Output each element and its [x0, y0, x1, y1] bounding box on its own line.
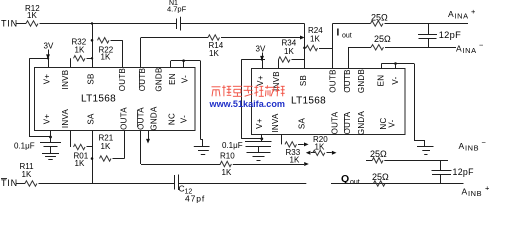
wire hat down right side U1	[200, 61, 202, 140]
resistor 25ohm (Iout)	[371, 21, 384, 26]
resistor R01	[74, 144, 86, 149]
resistor R33	[313, 150, 325, 155]
svg-text:out: out	[350, 179, 360, 186]
wire OUTA stub down U1	[124, 131, 126, 159]
wire SB line U2 (from top rail)	[304, 24, 306, 69]
svg-text:−: −	[479, 41, 484, 50]
resistor 25ohm (AINA-)	[371, 45, 384, 50]
svg-text:INA: INA	[455, 12, 469, 21]
svg-text:0.1μF: 0.1μF	[14, 142, 35, 151]
arrow R33 right	[332, 151, 337, 155]
resistor R14	[208, 35, 219, 40]
wire OUTB-bar stub up U2	[348, 47, 350, 68]
IC U1 LT1568 box	[35, 68, 196, 131]
svg-text:INVA: INVA	[61, 108, 70, 128]
wire R32 to SB line	[87, 58, 93, 60]
svg-text:1K: 1K	[209, 49, 219, 58]
resistor R10	[220, 161, 231, 166]
wire INVA stub down U2	[281, 135, 283, 145]
wire 3V junction right	[241, 59, 265, 61]
svg-text:LT1568: LT1568	[81, 94, 116, 105]
ground EN/V- U1	[194, 146, 210, 148]
wire V- stub U1	[183, 61, 185, 68]
arrow R33 left	[306, 151, 311, 155]
svg-text:INVB: INVB	[272, 71, 281, 91]
junction R21 on SA line	[91, 157, 94, 160]
arrow R20 right	[304, 142, 309, 146]
svg-text:INVB: INVB	[61, 70, 70, 90]
svg-text:V+: V+	[43, 114, 52, 125]
wire V+ top stub U2	[262, 60, 264, 69]
wire R20 to arrow	[298, 144, 304, 146]
wire EN stub U1	[170, 61, 172, 68]
svg-text:NC: NC	[168, 113, 177, 125]
wire CN1 to SB stub of U2	[181, 23, 305, 25]
wire V+ bottom stub U1	[50, 131, 52, 138]
svg-text:LT1568: LT1568	[291, 95, 326, 106]
wire 3V bypass down left side	[29, 58, 31, 137]
arrow into SA line U2	[304, 162, 309, 166]
wire EN hat U2	[381, 63, 414, 65]
wire OUTA-bar stub down U1	[140, 131, 142, 165]
svg-text:I: I	[337, 28, 340, 39]
wire SB line (top rail to U1)	[92, 24, 94, 68]
wire R14 to arrow	[221, 37, 300, 39]
junction R22 on SB line	[91, 39, 94, 42]
svg-text:3V: 3V	[44, 42, 54, 51]
svg-text:out: out	[342, 33, 352, 40]
capacitor 12pF bottom	[440, 160, 442, 170]
junction V- on hat U1	[182, 59, 185, 62]
svg-text:1K: 1K	[101, 142, 111, 151]
svg-text:−: −	[482, 138, 487, 147]
resistor 25ohm (Qout)	[374, 181, 385, 186]
wire C12 to end	[178, 183, 306, 185]
power 3V arrow (right)	[262, 53, 264, 57]
svg-text:1K: 1K	[22, 170, 32, 179]
svg-text:A: A	[448, 9, 454, 19]
svg-text:1K: 1K	[75, 46, 85, 55]
svg-text:V+: V+	[256, 75, 265, 86]
wire OUTA-bar rail	[141, 164, 221, 166]
wire EN stub U2	[381, 64, 383, 69]
wire SA line down to rail	[92, 131, 94, 184]
svg-text:+: +	[485, 184, 490, 193]
svg-text:GNDA: GNDA	[357, 110, 366, 135]
ground EN/V- U2	[417, 146, 434, 148]
wire R01 to SA line	[87, 146, 93, 148]
junction V+ bottom U2	[260, 137, 263, 140]
wire OUTB-bar to 25ohm	[348, 47, 371, 49]
wire INVA stub down	[70, 131, 72, 148]
ground below 0.1uF left	[42, 153, 59, 155]
svg-text:SA: SA	[87, 113, 96, 125]
junction V+ bottom U1	[49, 136, 52, 139]
svg-text:47pf: 47pf	[185, 194, 205, 204]
capacitor 0.1uF (right decoupling)	[261, 139, 263, 142]
svg-text:A: A	[462, 187, 468, 197]
svg-text:TIN: TIN	[1, 178, 18, 188]
svg-text:OUTA: OUTA	[120, 107, 129, 130]
junction R24 on SB line U2	[303, 47, 306, 50]
svg-text:1K: 1K	[27, 11, 37, 20]
svg-text:EN: EN	[168, 73, 177, 85]
power 3V arrow (left)	[48, 50, 50, 56]
arrow GNDA down U1	[148, 131, 150, 139]
svg-text:4.7pF: 4.7pF	[167, 5, 187, 14]
svg-text:OUTB: OUTB	[329, 69, 338, 92]
wire 3V bypass down left of U2	[241, 60, 243, 139]
svg-text:1K: 1K	[310, 35, 320, 44]
svg-text:TIN: TIN	[1, 19, 18, 29]
resistor R34	[279, 57, 290, 62]
wire V+ bottom stub U2	[261, 135, 263, 139]
junction V- on hat U2	[394, 62, 397, 65]
wire OUTB-bar stub up U1	[140, 38, 142, 68]
wire R21 to OUTA corner	[113, 158, 125, 160]
svg-text:EN: EN	[377, 75, 386, 87]
svg-text:A: A	[456, 44, 462, 54]
svg-text:1K: 1K	[284, 47, 294, 56]
resistor R24	[306, 45, 317, 50]
watermark red text	[212, 85, 285, 96]
resistor R22	[98, 38, 110, 43]
svg-text:1K: 1K	[222, 168, 232, 177]
wire OUTB-bar rail left part	[141, 37, 208, 39]
svg-text:INA: INA	[463, 46, 477, 55]
wire hat down right side U2	[414, 64, 416, 141]
wire R12 to C plate (TIN+ top rail)	[40, 23, 177, 25]
svg-text:A: A	[459, 141, 465, 151]
svg-text:GNDA: GNDA	[150, 106, 159, 131]
svg-text:V-: V-	[180, 115, 189, 123]
wire INVB stub up	[70, 58, 72, 67]
wire V+ top stub U1	[48, 58, 50, 67]
svg-text:12pF: 12pF	[439, 30, 461, 40]
wire TIN to R12	[16, 23, 26, 25]
resistor R32	[74, 56, 86, 61]
svg-text:1K: 1K	[75, 159, 85, 168]
capacitor 0.1uF (left decoupling)	[50, 137, 52, 143]
svg-text:SB: SB	[299, 75, 308, 86]
svg-text:OUTA: OUTA	[137, 107, 146, 130]
wire bypass to V+ bottom	[30, 136, 52, 138]
wire OUTB to 25ohm	[333, 23, 371, 25]
capacitor C12 (series, bottom rail)	[174, 175, 176, 190]
wire R11 to C12	[39, 183, 175, 185]
wire Qout rail	[331, 183, 464, 185]
ground below 0.1uF right	[247, 152, 271, 154]
resistor R20 lead zigzag	[285, 142, 296, 147]
wire R34 to SB line U2	[292, 59, 305, 61]
resistor R21	[100, 156, 112, 161]
wire INVB stub up U2	[278, 60, 280, 69]
svg-text:25Ω: 25Ω	[371, 13, 388, 23]
svg-text:INB: INB	[468, 189, 482, 198]
capacitor CN1 (series, top rail)	[176, 19, 178, 30]
resistor 25ohm (AINB-)	[372, 158, 383, 163]
wire 25ohm to AINA-	[385, 47, 456, 49]
capacitor 12pF top	[428, 24, 430, 35]
svg-text:1K: 1K	[101, 53, 111, 62]
svg-text:V-: V-	[391, 76, 400, 84]
wire lead to 25ohm AINB-	[366, 160, 372, 162]
svg-text:R10: R10	[220, 152, 235, 161]
wire 25ohm to AINA+	[385, 23, 469, 25]
arrow into SB line U2	[300, 36, 305, 40]
wire OUTB stub up U1	[122, 40, 124, 67]
resistor R12	[26, 21, 38, 26]
svg-text:SB: SB	[87, 73, 96, 84]
svg-text:3V: 3V	[256, 45, 266, 54]
wire OUTB line U2	[332, 24, 334, 69]
svg-text:OUTB: OUTB	[118, 68, 127, 91]
svg-text:25Ω: 25Ω	[374, 34, 391, 44]
svg-text:GNDB: GNDB	[357, 69, 366, 93]
wire bypass to V+ bottom U2	[241, 138, 261, 140]
wire R10 to arrow	[233, 164, 304, 166]
wire R33 right lead	[327, 152, 332, 154]
svg-text:INVA: INVA	[271, 113, 280, 133]
svg-text:GNDB: GNDB	[155, 67, 164, 91]
wire R22 to OUTB corner	[111, 40, 123, 42]
svg-text:V-: V-	[181, 75, 190, 83]
junction SB-line on top rail	[91, 22, 93, 24]
svg-text:V+: V+	[43, 74, 52, 85]
svg-text:www.51kaifa.com: www.51kaifa.com	[208, 99, 285, 109]
wire TIN- to R11	[16, 183, 25, 185]
wire R33 left lead	[311, 152, 315, 154]
svg-text:V+: V+	[255, 118, 264, 129]
svg-text:INB: INB	[465, 144, 479, 153]
resistor R11	[25, 181, 37, 186]
IC U2 LT1568 box	[252, 69, 406, 135]
wire EN hat U1	[171, 60, 201, 62]
svg-text:1K: 1K	[290, 156, 300, 165]
svg-text:SA: SA	[298, 118, 307, 130]
wire 25ohm to AINB-	[384, 160, 448, 162]
svg-text:V-: V-	[388, 119, 397, 127]
svg-text:+: +	[471, 7, 476, 16]
wire V- stub U2	[395, 64, 397, 69]
wire 3V junction left	[30, 58, 49, 60]
svg-text:12pF: 12pF	[453, 167, 475, 177]
svg-text:OUTA: OUTA	[331, 111, 340, 134]
wire R24 to OUTB line U2	[319, 48, 333, 50]
svg-text:0.1μF: 0.1μF	[222, 141, 243, 150]
